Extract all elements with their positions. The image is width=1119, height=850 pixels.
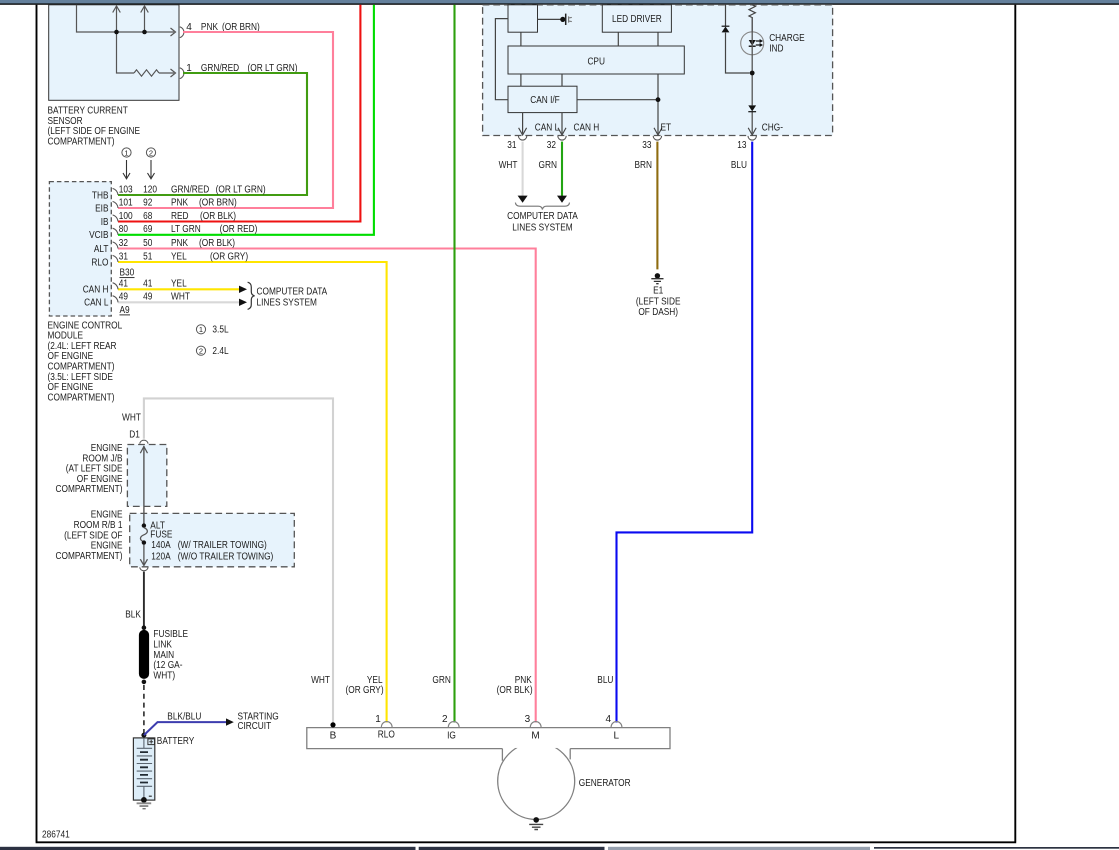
node junction on CHG line xyxy=(750,71,755,76)
R/B bottom connector xyxy=(140,567,148,570)
wire WHT meter CAN L xyxy=(522,142,524,196)
wire GRN/RED sensor pin1 to ECM THB xyxy=(118,73,307,195)
brace computer data lines bottom xyxy=(515,203,569,210)
svg-text:140A: 140A xyxy=(151,540,171,551)
svg-text:4: 4 xyxy=(605,714,611,725)
svg-text:COMPUTER DATA: COMPUTER DATA xyxy=(257,286,328,297)
svg-text:13: 13 xyxy=(737,140,747,151)
svg-text:2.4L: 2.4L xyxy=(212,346,229,357)
svg-text:WHT: WHT xyxy=(122,413,141,424)
svg-text:80: 80 xyxy=(119,224,129,235)
wire LT GRN to ECM VCIB xyxy=(118,5,374,235)
note circled 2 2.4L xyxy=(196,346,205,355)
brace computer data lines xyxy=(248,282,255,309)
CPU box xyxy=(508,46,684,74)
svg-text:50: 50 xyxy=(143,238,153,249)
svg-text:OF DASH): OF DASH) xyxy=(638,307,678,318)
meter pin out arrows xyxy=(519,128,757,135)
svg-text:EIB: EIB xyxy=(95,203,109,214)
svg-text:IB: IB xyxy=(101,217,109,228)
engine room R/B 1 box xyxy=(130,513,295,566)
svg-text:CAN I/F: CAN I/F xyxy=(530,95,560,106)
svg-text:RED: RED xyxy=(171,211,189,222)
engine control module box xyxy=(49,182,111,316)
svg-text:92: 92 xyxy=(143,197,153,208)
svg-text:COMPARTMENT): COMPARTMENT) xyxy=(56,551,123,562)
diode D1 branch xyxy=(726,5,750,73)
svg-text:CIRCUIT: CIRCUIT xyxy=(238,721,272,732)
svg-text:D1: D1 xyxy=(129,429,140,440)
svg-text:120A: 120A xyxy=(151,551,171,562)
svg-text:E1: E1 xyxy=(653,286,664,297)
wire PNK sensor pin4 to ECM EIB xyxy=(118,32,333,208)
buzzer contact xyxy=(560,17,565,22)
wire GRN to generator IG xyxy=(453,5,455,723)
svg-text:2: 2 xyxy=(199,347,203,356)
svg-text:100: 100 xyxy=(119,211,133,222)
svg-text:CAN L: CAN L xyxy=(535,123,560,134)
svg-text:LINES SYSTEM: LINES SYSTEM xyxy=(512,222,572,233)
wire BLK/BLU to starting circuit xyxy=(144,722,227,735)
svg-text:LINES SYSTEM: LINES SYSTEM xyxy=(257,297,317,308)
svg-text:GRN/RED: GRN/RED xyxy=(171,184,209,195)
resistor R charge xyxy=(749,5,755,32)
svg-text:YEL: YEL xyxy=(171,251,187,262)
svg-text:(OR LT GRN): (OR LT GRN) xyxy=(216,184,266,195)
charge indicator LED xyxy=(741,32,764,55)
svg-text:COMPARTMENT): COMPARTMENT) xyxy=(48,136,115,147)
svg-text:M: M xyxy=(531,731,539,742)
svg-text:41: 41 xyxy=(143,279,153,290)
svg-text:3.5L: 3.5L xyxy=(212,325,229,336)
meter internal wires xyxy=(495,19,658,134)
wire RED to ECM IB xyxy=(118,5,360,222)
engine room J/B box xyxy=(127,445,166,507)
svg-text:FUSE: FUSE xyxy=(150,529,172,540)
svg-text:RLO: RLO xyxy=(91,257,108,268)
svg-text:WHT): WHT) xyxy=(153,670,175,681)
J/B internal wire xyxy=(143,446,145,513)
svg-text:IND: IND xyxy=(769,43,783,54)
svg-text:(OR BLK): (OR BLK) xyxy=(199,238,235,249)
svg-text:(OR BLK): (OR BLK) xyxy=(497,685,533,696)
svg-text:RLO: RLO xyxy=(378,730,395,741)
svg-text:YEL: YEL xyxy=(171,279,187,290)
svg-text:120: 120 xyxy=(143,184,157,195)
svg-text:1: 1 xyxy=(375,714,381,725)
bottom strip window tops xyxy=(0,847,416,850)
svg-text:(OR BLK): (OR BLK) xyxy=(200,211,236,222)
svg-text:COMPARTMENT): COMPARTMENT) xyxy=(48,392,115,403)
wire BLK xyxy=(143,572,145,626)
circled 2 column marker xyxy=(146,148,155,157)
battery ground xyxy=(141,797,147,803)
svg-text:CAN L: CAN L xyxy=(84,298,109,309)
charge line lower segment xyxy=(751,17,753,134)
dashed wire to battery xyxy=(143,685,145,733)
svg-text:31: 31 xyxy=(119,251,129,262)
wire BRN meter ET xyxy=(656,142,658,270)
battery cells xyxy=(137,738,152,798)
svg-text:CPU: CPU xyxy=(587,57,605,68)
combination meter box xyxy=(483,5,833,136)
svg-text:BLK: BLK xyxy=(125,610,141,621)
fusible link main xyxy=(142,625,147,630)
svg-text:31: 31 xyxy=(507,140,517,151)
svg-text:BLU: BLU xyxy=(597,675,613,686)
wire YEL ECM CAN H xyxy=(118,288,240,290)
LED driver box xyxy=(602,5,671,32)
note circled 1 3.5L xyxy=(196,325,205,334)
svg-text:L: L xyxy=(614,731,620,742)
svg-text:ALT: ALT xyxy=(94,244,109,255)
svg-text:286741: 286741 xyxy=(42,830,70,841)
wire YEL ECM RLO to generator RLO xyxy=(118,262,387,723)
svg-text:2: 2 xyxy=(149,148,153,157)
svg-text:(OR GRY): (OR GRY) xyxy=(210,251,248,262)
wire WHT J/B D1 to generator B xyxy=(144,398,333,723)
svg-text:CAN H: CAN H xyxy=(83,285,109,296)
junction dots xyxy=(114,30,119,35)
generator terminal box xyxy=(307,728,670,761)
svg-text:GENERATOR: GENERATOR xyxy=(579,778,631,789)
diode D2 xyxy=(748,105,756,111)
svg-text:3: 3 xyxy=(525,714,531,725)
CAN L arrow to data lines xyxy=(239,299,247,306)
wire WHT ECM CAN L xyxy=(118,301,240,303)
svg-text:101: 101 xyxy=(119,197,133,208)
svg-text:68: 68 xyxy=(143,211,153,222)
circled 1 column marker xyxy=(122,148,131,157)
svg-text:BATTERY: BATTERY xyxy=(157,736,195,747)
CAN I/F box xyxy=(508,86,577,112)
pin 1 connector xyxy=(171,69,176,77)
svg-text:PNK: PNK xyxy=(171,238,188,249)
svg-text:COMPARTMENT): COMPARTMENT) xyxy=(56,484,123,495)
svg-text:THB: THB xyxy=(92,190,109,201)
svg-text:GRN: GRN xyxy=(539,160,558,171)
svg-text:B: B xyxy=(330,731,337,742)
svg-text:WHT: WHT xyxy=(311,675,330,686)
svg-text:LED DRIVER: LED DRIVER xyxy=(612,14,662,25)
svg-text:COMPUTER DATA: COMPUTER DATA xyxy=(507,211,578,222)
svg-text:CHG-: CHG- xyxy=(762,123,783,134)
svg-text:WHT: WHT xyxy=(171,292,190,303)
battery xyxy=(133,738,154,800)
wire PNK ECM ALT to generator M xyxy=(118,249,536,723)
CAN H arrow to data lines xyxy=(239,286,247,293)
svg-text:51: 51 xyxy=(143,251,153,262)
svg-text:B30: B30 xyxy=(120,268,135,279)
sensor internal wires xyxy=(77,5,175,73)
svg-text:(OR BRN): (OR BRN) xyxy=(199,197,237,208)
generator ground xyxy=(533,817,539,823)
svg-text:ET: ET xyxy=(661,123,672,134)
svg-text:LT GRN: LT GRN xyxy=(171,224,201,235)
resistor inside sensor xyxy=(134,70,159,76)
svg-text:41: 41 xyxy=(119,279,129,290)
svg-text:49: 49 xyxy=(119,292,129,303)
svg-text:1: 1 xyxy=(199,325,203,334)
svg-text:(OR RED): (OR RED) xyxy=(220,224,258,235)
terminal connectors xyxy=(381,722,392,727)
svg-text:BRN: BRN xyxy=(635,160,653,171)
svg-text:BLK/BLU: BLK/BLU xyxy=(167,711,201,722)
battery current sensor box xyxy=(49,5,179,101)
svg-text:(W/ TRAILER TOWING): (W/ TRAILER TOWING) xyxy=(178,540,267,551)
node ET junction xyxy=(656,97,661,102)
svg-text:BLU: BLU xyxy=(731,160,747,171)
generator body circle xyxy=(498,743,575,820)
wire BLU meter CHG- to generator L xyxy=(617,142,753,723)
svg-text:IG: IG xyxy=(447,731,456,742)
meter pin connectors xyxy=(518,136,526,140)
svg-text:(W/O TRAILER TOWING): (W/O TRAILER TOWING) xyxy=(178,551,273,562)
svg-text:GRN: GRN xyxy=(432,675,451,686)
terminal B junction xyxy=(330,722,335,727)
ground E1 xyxy=(655,273,660,278)
svg-text:49: 49 xyxy=(143,292,153,303)
up arrows inside sensor xyxy=(113,6,149,13)
svg-text:VCIB: VCIB xyxy=(89,230,109,241)
svg-text:CAN H: CAN H xyxy=(574,123,600,134)
svg-text:32: 32 xyxy=(547,140,557,151)
svg-text:69: 69 xyxy=(143,224,153,235)
wire GRN meter CAN H xyxy=(561,142,563,196)
top window bar xyxy=(0,0,1119,4)
ALT fuse xyxy=(143,513,145,524)
svg-text:33: 33 xyxy=(642,140,652,151)
svg-text:32: 32 xyxy=(119,238,129,249)
svg-text:103: 103 xyxy=(119,184,133,195)
svg-text:WHT: WHT xyxy=(499,160,518,171)
svg-text:(OR GRY): (OR GRY) xyxy=(346,685,384,696)
pin 4 connector xyxy=(171,28,176,36)
svg-text:1: 1 xyxy=(124,148,128,157)
svg-text:PNK: PNK xyxy=(171,197,188,208)
meter internal block U1 xyxy=(508,5,538,32)
svg-text:A9: A9 xyxy=(120,305,131,316)
svg-text:2: 2 xyxy=(442,714,448,725)
